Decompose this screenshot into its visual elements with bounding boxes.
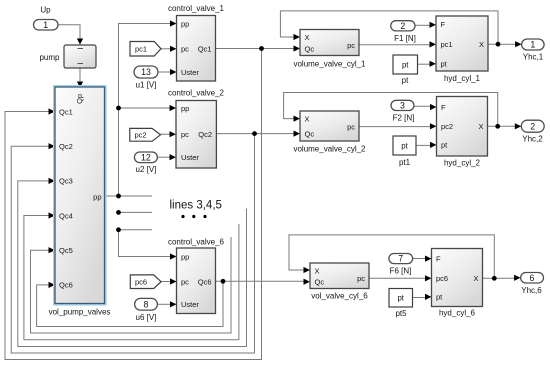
svg-text:Uster: Uster: [181, 300, 199, 309]
svg-text:pc1: pc1: [135, 45, 147, 54]
svg-text:2: 2: [530, 121, 535, 131]
svg-text:pt: pt: [441, 60, 448, 69]
svg-text:Yhc,2: Yhc,2: [522, 135, 543, 144]
svg-text:X: X: [305, 33, 310, 42]
svg-text:Qp: Qp: [75, 94, 84, 104]
svg-text:hyd_cyl_1: hyd_cyl_1: [444, 74, 481, 83]
svg-text:Qc6: Qc6: [59, 281, 73, 290]
svg-text:F6 [N]: F6 [N]: [390, 267, 412, 276]
svg-text:7: 7: [398, 254, 403, 264]
svg-text:u1 [V]: u1 [V]: [136, 81, 157, 90]
svg-text:pc1: pc1: [441, 40, 453, 49]
svg-text:X: X: [478, 122, 483, 131]
svg-text:pp: pp: [181, 104, 189, 113]
svg-text:1: 1: [530, 40, 535, 50]
svg-text:Qc: Qc: [305, 44, 315, 53]
svg-text:pt: pt: [401, 141, 408, 150]
svg-text:13: 13: [141, 67, 151, 77]
svg-text:control_valve_1: control_valve_1: [168, 4, 225, 13]
svg-text:u6 [V]: u6 [V]: [136, 313, 157, 322]
svg-text:3: 3: [400, 101, 405, 111]
svg-text:Qc1: Qc1: [198, 45, 212, 54]
svg-text:pt: pt: [441, 141, 448, 150]
svg-text:u2 [V]: u2 [V]: [136, 165, 157, 174]
svg-text:pc2: pc2: [135, 131, 147, 140]
svg-text:F2 [N]: F2 [N]: [393, 114, 415, 123]
svg-text:control_valve_2: control_valve_2: [168, 89, 225, 98]
svg-text:Qc5: Qc5: [59, 246, 73, 255]
svg-text:volume_valve_cyl_2: volume_valve_cyl_2: [293, 145, 366, 154]
svg-text:pc: pc: [357, 274, 365, 283]
svg-text:X: X: [315, 266, 320, 275]
svg-text:pc2: pc2: [441, 122, 453, 131]
svg-text:Qc4: Qc4: [59, 211, 73, 220]
svg-text:Qc3: Qc3: [59, 177, 73, 186]
svg-text:Up: Up: [40, 6, 51, 15]
svg-text:2: 2: [400, 21, 405, 31]
svg-text:pump: pump: [39, 53, 60, 62]
svg-text:Yhc,1: Yhc,1: [523, 53, 544, 62]
svg-text:vol_valve_cyl_6: vol_valve_cyl_6: [311, 292, 368, 301]
svg-text:X: X: [473, 274, 478, 283]
svg-text:pt5: pt5: [395, 309, 407, 318]
svg-text:F: F: [441, 103, 446, 112]
svg-text:Qc6: Qc6: [198, 277, 212, 286]
svg-text:hyd_cyl_6: hyd_cyl_6: [439, 309, 476, 318]
svg-text:Uster: Uster: [181, 68, 199, 77]
svg-text:12: 12: [141, 152, 151, 162]
svg-text:pp: pp: [181, 252, 189, 261]
svg-text:pt: pt: [397, 294, 404, 303]
svg-text:pt: pt: [402, 60, 409, 69]
svg-text:pt1: pt1: [399, 158, 411, 167]
svg-text:F: F: [441, 20, 446, 29]
svg-text:8: 8: [144, 299, 149, 309]
svg-text:Yhc,6: Yhc,6: [521, 286, 542, 295]
svg-text:F: F: [436, 254, 441, 263]
svg-text:volume_valve_cyl_1: volume_valve_cyl_1: [293, 60, 366, 69]
svg-text:F1 [N]: F1 [N]: [394, 34, 416, 43]
svg-text:Qc: Qc: [305, 129, 315, 138]
svg-text:pt: pt: [436, 293, 443, 302]
svg-text:pp: pp: [181, 19, 189, 28]
svg-text:Qc: Qc: [315, 278, 325, 287]
svg-text:pc: pc: [181, 277, 189, 286]
svg-text:hyd_cyl_2: hyd_cyl_2: [444, 158, 481, 167]
svg-text:Qc1: Qc1: [59, 107, 73, 116]
svg-text:Qc2: Qc2: [198, 130, 212, 139]
svg-text:control_valve_6: control_valve_6: [168, 238, 225, 247]
svg-text:1: 1: [43, 20, 48, 30]
svg-text:vol_pump_valves: vol_pump_valves: [49, 308, 111, 317]
svg-text:X: X: [305, 114, 310, 123]
svg-text:pt: pt: [402, 76, 409, 85]
svg-text:pc: pc: [347, 41, 355, 50]
svg-text:pp: pp: [93, 193, 101, 202]
svg-text:Uster: Uster: [181, 153, 199, 162]
svg-text:6: 6: [530, 273, 535, 283]
svg-text:X: X: [479, 40, 484, 49]
svg-text:pc: pc: [181, 45, 189, 54]
svg-text:pc6: pc6: [135, 278, 147, 287]
svg-text:pc: pc: [181, 130, 189, 139]
svg-text:pc6: pc6: [436, 274, 448, 283]
svg-text:pc: pc: [347, 123, 355, 132]
svg-text:lines 3,4,5: lines 3,4,5: [170, 200, 222, 212]
svg-text:Qc2: Qc2: [59, 142, 73, 151]
